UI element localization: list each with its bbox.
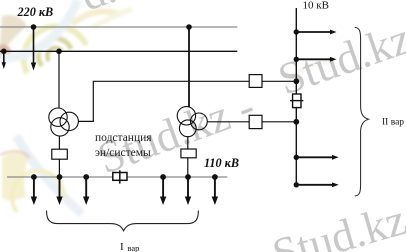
label I вар bbox=[120, 241, 139, 252]
svg-text:подстанция: подстанция bbox=[95, 132, 152, 144]
node + load arrow 2 on 110kV bus (T1 infeed) bbox=[56, 174, 62, 205]
wire T1 tertiary to breaker bbox=[78, 81, 249, 121]
wire Q2 to 110kV bus bbox=[187, 158, 189, 177]
node + load arrow b on 10kV bus bbox=[294, 57, 337, 62]
bus W2 220kV bbox=[0, 50, 237, 52]
bus 10kV bbox=[295, 8, 297, 187]
svg-text:Stud.kz: Stud.kz bbox=[267, 194, 406, 252]
svg-text:Stud.kz: Stud.kz bbox=[272, 13, 406, 105]
wire T2 tertiary to breaker bbox=[207, 121, 249, 123]
bus W1 220kV bbox=[0, 26, 237, 28]
node on W1 tap of T2 bbox=[186, 24, 192, 30]
feeder arrow from W1 bbox=[31, 27, 36, 71]
sectionalizer on 10kV bus bbox=[290, 94, 303, 108]
breaker Q4 bbox=[249, 115, 262, 128]
node + load arrow 3 on 110kV bus bbox=[83, 174, 89, 205]
svg-text:I: I bbox=[120, 241, 124, 252]
breaker Q2 bbox=[181, 149, 196, 158]
sectionalizer on 110kV bus bbox=[113, 170, 127, 183]
svg-text:110 кВ: 110 кВ bbox=[204, 156, 239, 170]
node on W1 at feeder bbox=[31, 24, 37, 30]
svg-text:эн/системы: эн/системы bbox=[95, 147, 151, 159]
transformer T1 (three-winding) bbox=[49, 108, 79, 136]
brace variant II bbox=[355, 27, 369, 196]
node + load arrow d on 10kV bus bbox=[294, 182, 339, 187]
svg-text:II вар: II вар bbox=[382, 118, 404, 128]
feeder arrow from W2 bbox=[2, 51, 6, 69]
breaker Q3 bbox=[249, 75, 262, 88]
wire W1 to T2 bbox=[188, 27, 190, 107]
node on W2 at left feeder bbox=[1, 49, 7, 55]
transformer T2 (three-winding) bbox=[177, 107, 207, 137]
brace variant I bbox=[47, 211, 199, 231]
wire T1 to breaker Q1 bbox=[58, 136, 60, 149]
breaker Q1 bbox=[52, 149, 68, 159]
svg-text:220 кВ: 220 кВ bbox=[17, 5, 54, 19]
node junction Q4 on 10kV bus bbox=[293, 119, 299, 125]
wire Q1 to 110kV bus bbox=[58, 159, 60, 177]
node + load arrow 1 on 110kV bus bbox=[31, 174, 37, 205]
node on W2 tap of T1 bbox=[56, 49, 62, 55]
node + load arrow 5 on 110kV bus (T2 infeed) bbox=[185, 174, 191, 205]
node + load arrow 4 on 110kV bus bbox=[160, 174, 166, 205]
label подстанция эн/системы bbox=[95, 132, 152, 159]
node + load arrow 6 on 110kV bus bbox=[212, 174, 218, 205]
node junction Q3 on 10kV bus bbox=[293, 78, 299, 84]
wire W2 to T1 bbox=[58, 51, 60, 108]
node + load arrow c on 10kV bus bbox=[294, 155, 339, 160]
node + load arrow a on 10kV bus bbox=[294, 29, 337, 34]
svg-text:10 кВ: 10 кВ bbox=[303, 0, 329, 11]
svg-text:вар: вар bbox=[128, 243, 140, 252]
wire Q4 to 10kV bus bbox=[262, 121, 296, 123]
bus 110kV bbox=[7, 176, 227, 178]
wire Q3 to 10kV bus bbox=[262, 80, 296, 82]
watermark logos and gray text (decorative) bbox=[0, 0, 330, 214]
wire T2 to breaker Q2 bbox=[187, 137, 189, 149]
